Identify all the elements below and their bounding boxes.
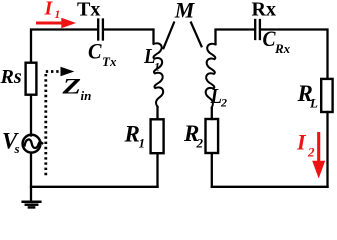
wire L1 bottom to R1: [156, 107, 158, 118]
current arrow I1: [38, 18, 77, 28]
svg-text:s: s: [14, 141, 20, 156]
label R2: [183, 121, 204, 150]
wire L2 bottom to R2: [211, 108, 213, 119]
svg-text:2: 2: [196, 135, 204, 150]
svg-text:in: in: [81, 88, 92, 103]
svg-text:Rs: Rs: [0, 66, 22, 88]
ground: [23, 202, 41, 208]
svg-text:2: 2: [307, 145, 315, 160]
svg-text:Z: Z: [61, 74, 81, 99]
mutual inductance M right line: [191, 23, 202, 47]
svg-text:1: 1: [154, 60, 160, 74]
label I2: [296, 130, 315, 160]
svg-text:Tx: Tx: [102, 54, 117, 69]
wire Vs to bottom: [30, 153, 32, 201]
resistor RL: [321, 79, 332, 112]
resistor R2: [206, 119, 219, 153]
svg-text:Rx: Rx: [274, 41, 291, 56]
svg-text:L: L: [309, 96, 318, 111]
wire R1 to bottom rail: [156, 153, 158, 187]
resistor R1: [151, 119, 164, 153]
label Vs: [2, 129, 20, 156]
mutual inductance M left line: [164, 23, 175, 49]
svg-text:2: 2: [220, 96, 227, 110]
wire top-left segment (left rail top corner to C_Tx): [31, 30, 97, 63]
wire Rs to Vs: [30, 96, 32, 136]
label RL: [297, 81, 319, 111]
svg-text:1: 1: [139, 135, 146, 150]
label C_Rx: [263, 26, 291, 56]
inductor L2: [206, 44, 216, 107]
svg-text:Tx: Tx: [77, 0, 100, 21]
wire RL to bottom right corner: [326, 112, 328, 187]
label R1: [124, 122, 146, 151]
wire C_Rx to right rail: [261, 30, 328, 79]
label L2: [210, 84, 227, 110]
impedance Zin dashed arrow: [46, 72, 60, 177]
wire Rx top corner to L2: [216, 30, 255, 45]
wire bottom left loop: [31, 186, 158, 188]
capacitor C_Tx: [98, 20, 103, 40]
Zin arrowhead: [61, 67, 75, 76]
capacitor C_Rx: [255, 20, 260, 39]
label I1: [44, 0, 61, 21]
svg-text:I: I: [296, 130, 307, 155]
wire bottom right loop: [212, 186, 328, 188]
label C_Tx: [88, 39, 117, 70]
svg-text:1: 1: [55, 9, 61, 21]
svg-text:R: R: [124, 122, 140, 147]
svg-text:M: M: [174, 0, 196, 23]
svg-text:Rx: Rx: [252, 0, 276, 20]
current arrow I2: [312, 134, 325, 179]
svg-text:C: C: [88, 39, 102, 64]
svg-text:I: I: [44, 0, 54, 20]
svg-text:C: C: [263, 26, 276, 51]
resistor Rs: [26, 63, 37, 95]
inductor L1: [153, 43, 163, 106]
wire R2 to bottom rail: [211, 155, 213, 187]
label L1: [143, 44, 160, 74]
wire C_Tx to L1 top corner: [104, 30, 154, 43]
label Zin: [61, 74, 91, 104]
source Vs: [23, 135, 43, 153]
